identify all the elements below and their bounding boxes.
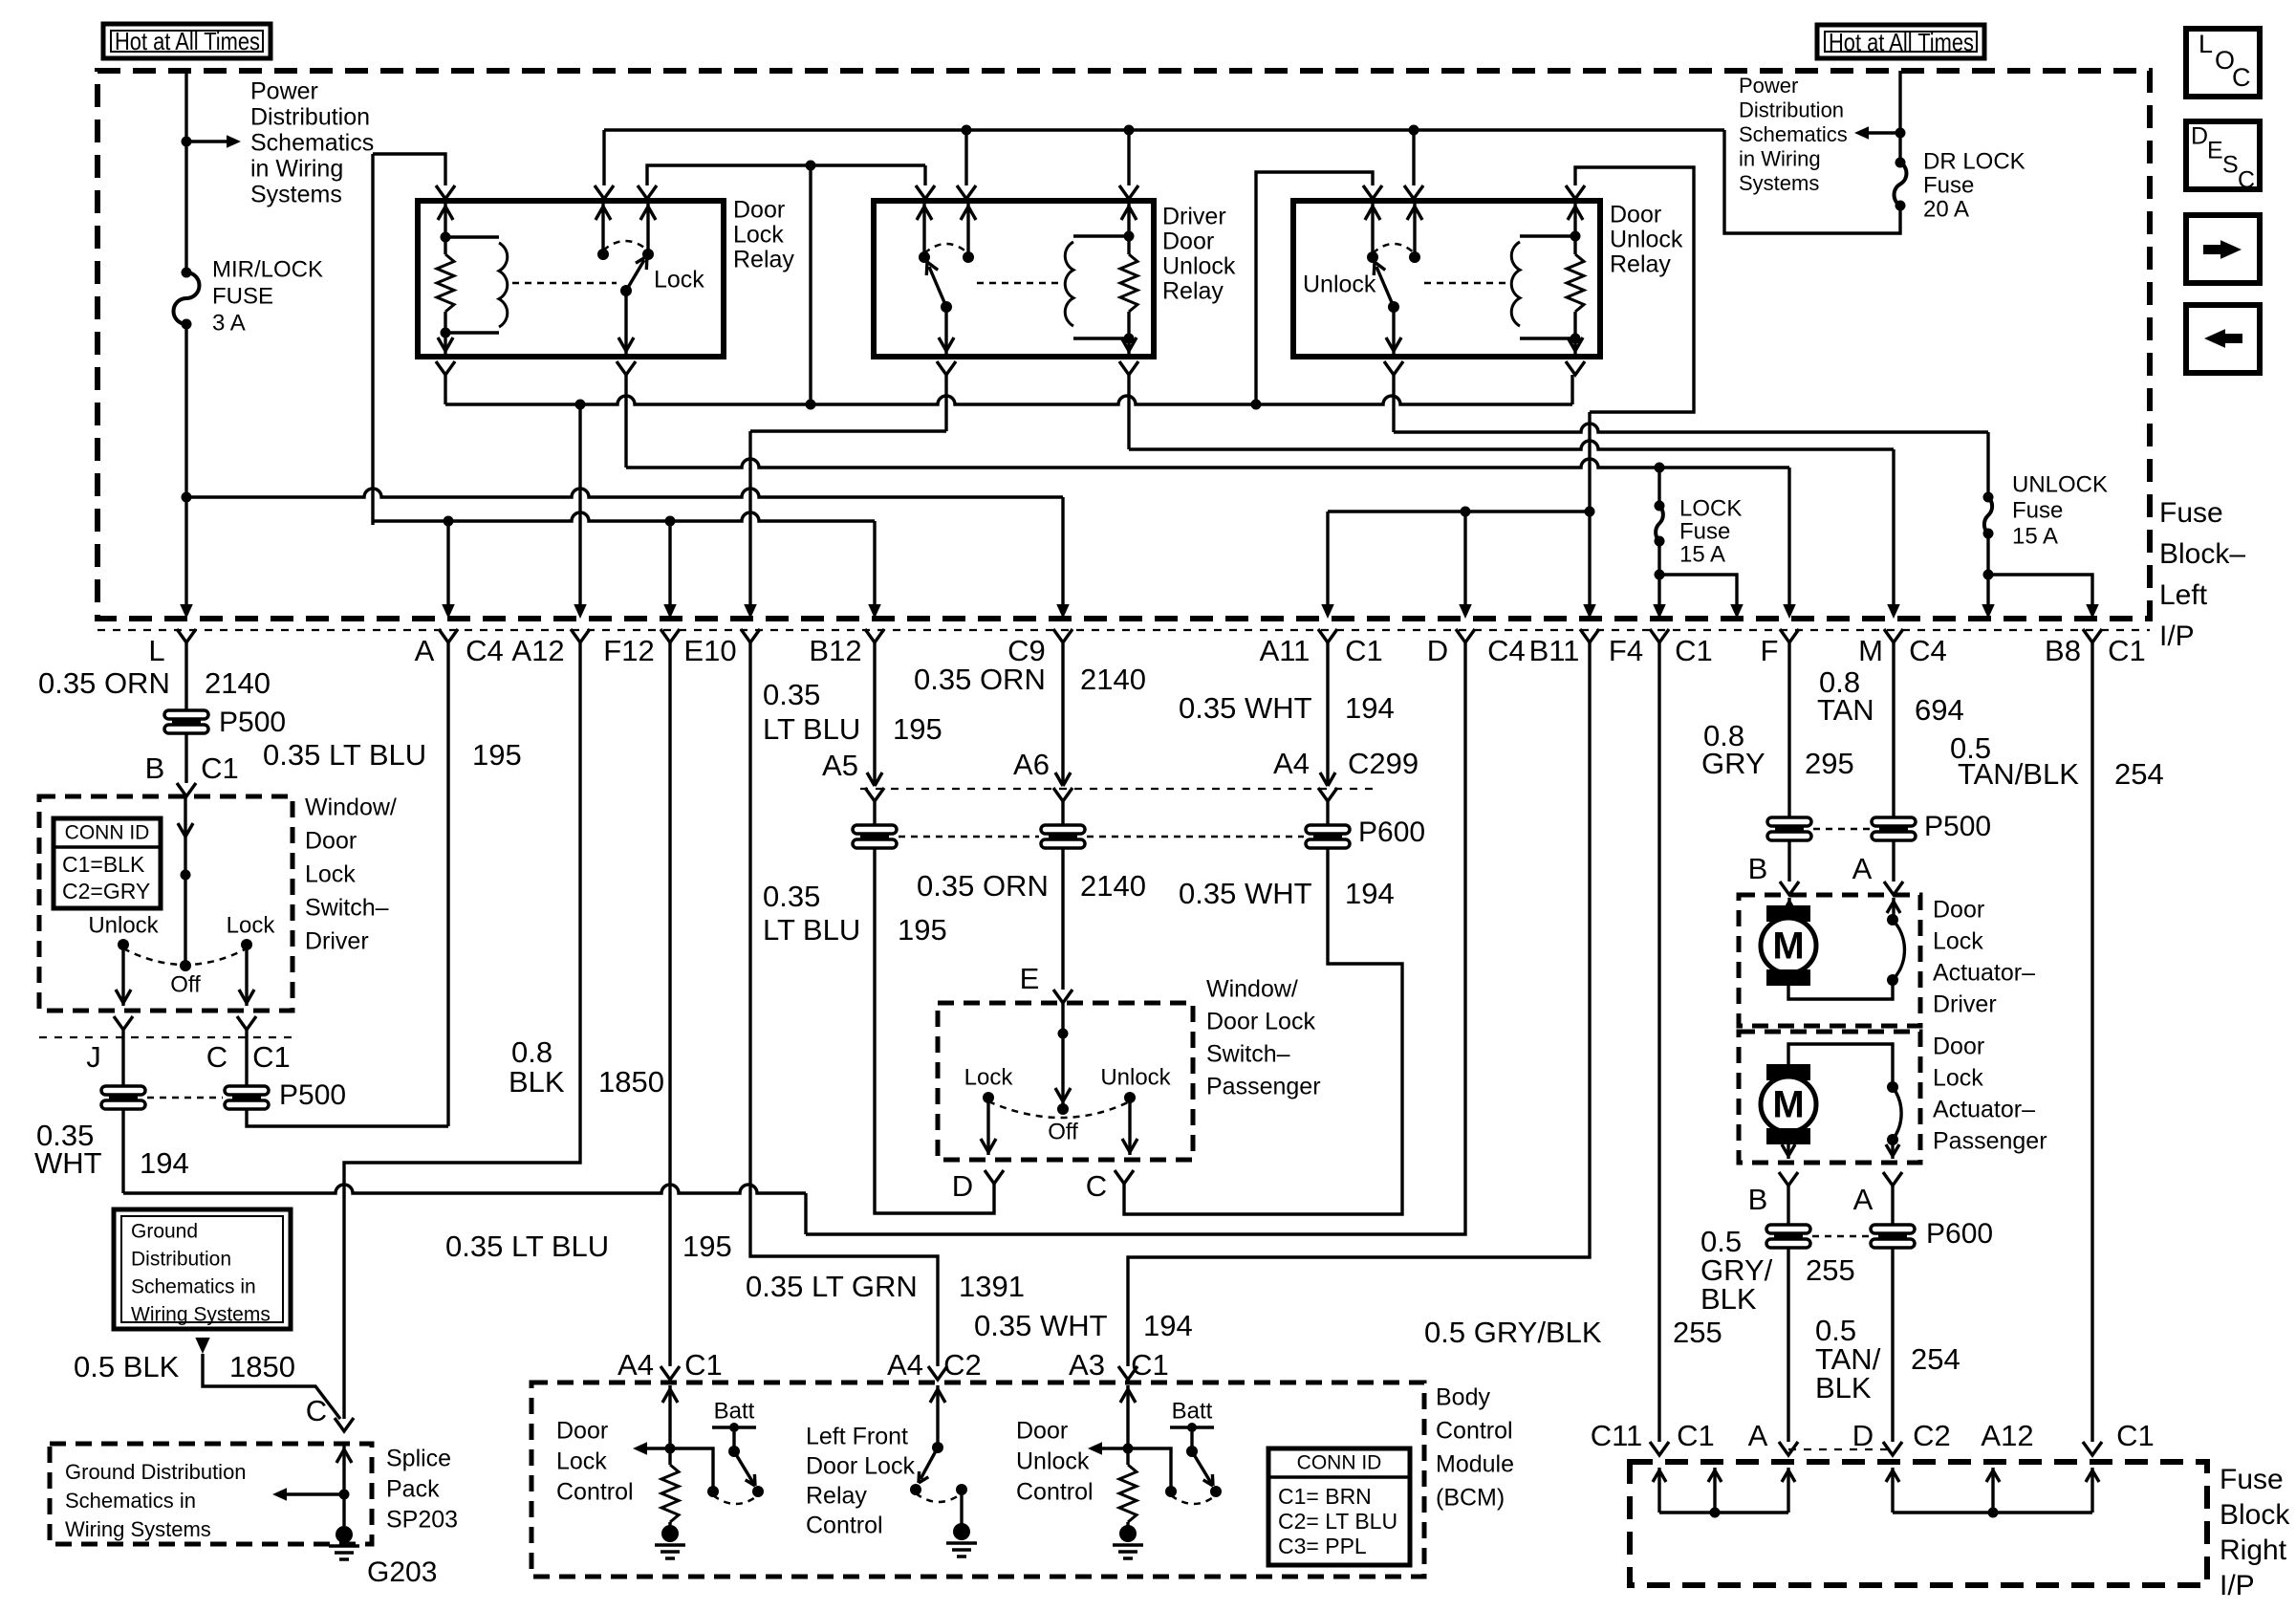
svg-text:M: M — [1858, 634, 1883, 667]
svg-text:Control: Control — [806, 1513, 883, 1539]
node bus545 at F12 pin — [665, 516, 676, 527]
BCM door unlock control input arrow — [1126, 1385, 1129, 1448]
BCM Batt 2 left contact — [1165, 1486, 1177, 1497]
svg-text:A4: A4 — [617, 1348, 654, 1382]
svg-text:2140: 2140 — [205, 666, 271, 700]
fuse block right internal bus 1 — [1657, 1468, 1660, 1513]
svg-text:C1=BLK: C1=BLK — [62, 852, 145, 877]
wire: link y=180 from bus riser to relay3 left contact pin — [1256, 172, 1373, 404]
svg-text:0.35: 0.35 — [763, 880, 820, 913]
arrow to Power Distribution Schematics (right-pointing) — [186, 140, 227, 142]
relay3 coil bottom pin arrow inside (down) — [1573, 338, 1576, 354]
relay2 pole pin chevron below box — [937, 361, 956, 375]
svg-text:0.35: 0.35 — [763, 678, 820, 711]
fine dashed connector line between pins A and D — [1788, 1448, 1893, 1450]
pin E10 — [741, 629, 760, 642]
body control module dashed box — [531, 1382, 1424, 1577]
svg-text:2140: 2140 — [1080, 869, 1146, 903]
BCM door lock control output arrow west — [646, 1447, 670, 1449]
wire: P500 to driver switch pin B-C1 — [184, 733, 187, 783]
svg-text:C1: C1 — [1345, 634, 1383, 667]
pin B of passenger actuator — [1779, 1172, 1798, 1186]
svg-text:Door Lock: Door Lock — [806, 1453, 915, 1480]
svg-text:F12: F12 — [603, 634, 654, 667]
svg-text:Off: Off — [1048, 1119, 1078, 1144]
wire: bus y=470 relay2 coil to M pin — [1129, 441, 1894, 449]
svg-text:Lock: Lock — [556, 1448, 607, 1475]
svg-text:194: 194 — [1345, 877, 1395, 910]
wire: P500 to driver actuator pin A — [1892, 840, 1895, 882]
svg-text:MIR/LOCK: MIR/LOCK — [212, 256, 323, 282]
relay K2 box: Driver Door Unlock Relay — [874, 201, 1154, 357]
svg-text:D: D — [1427, 634, 1448, 667]
svg-text:CONN ID: CONN ID — [65, 822, 150, 844]
driver actuator link bar — [1788, 980, 1893, 999]
fuse: DR LOCK Fuse 20 A — [1895, 163, 1907, 206]
svg-text:295: 295 — [1805, 747, 1854, 780]
svg-text:P500: P500 — [219, 707, 286, 738]
wire: relay3 coil top pin link to B11 drop (y=175, x=1772, y=431) — [1575, 167, 1694, 412]
fuse block left connector fine dashed line — [97, 629, 2150, 631]
relay1 left switch contact — [597, 249, 609, 260]
svg-text:C1: C1 — [2108, 634, 2146, 667]
svg-text:Pack: Pack — [386, 1476, 440, 1503]
wire: B11 net to BCM A3-C1 (0.35 WHT 194) — [1128, 642, 1590, 1366]
svg-text:Schematics: Schematics — [1739, 122, 1848, 146]
connector P500 pair below driver switch — [101, 1086, 145, 1095]
svg-text:Relay: Relay — [806, 1483, 867, 1510]
svg-text:Left: Left — [2159, 579, 2208, 611]
svg-text:194: 194 — [1143, 1309, 1193, 1342]
arrow to Power Distribution Schematics (left-pointing) — [1866, 131, 1900, 134]
svg-text:Control: Control — [1016, 1479, 1094, 1506]
arrow into border at pin L — [180, 604, 193, 619]
wire: D drop from bus535 — [1463, 512, 1466, 606]
svg-text:TAN/BLK: TAN/BLK — [1958, 757, 2079, 791]
svg-text:Passenger: Passenger — [1933, 1128, 2047, 1155]
wire: B11 vertical from y=431 through buses to border — [1588, 412, 1591, 606]
wire: A12 ground wire 0.8 BLK down to splice — [344, 642, 580, 1419]
relay3 left switch contact — [1367, 251, 1378, 263]
relay2 left contact pin arrow inside — [922, 204, 925, 257]
relay3 actuation dashed link — [1424, 282, 1508, 285]
svg-text:Schematics in: Schematics in — [65, 1489, 196, 1513]
wire: bus y=423 relay1 coil bottom to relay3 coil bottom — [444, 375, 446, 404]
svg-text:M: M — [1772, 925, 1804, 968]
svg-text:Unlock: Unlock — [1610, 227, 1683, 253]
motor M passenger actuator — [1766, 1064, 1810, 1080]
svg-text:UNLOCK: UNLOCK — [2012, 471, 2108, 497]
svg-text:J: J — [86, 1040, 101, 1074]
svg-text:A: A — [1853, 1183, 1874, 1216]
pin C of passenger switch — [1115, 1170, 1134, 1184]
splice pack stem arrow up — [342, 1446, 345, 1526]
node on passenger stem — [1058, 1029, 1069, 1039]
svg-text:Unlock: Unlock — [1162, 253, 1236, 280]
svg-text:Fuse: Fuse — [2012, 497, 2063, 523]
BCM Batt 1 arm — [734, 1451, 753, 1483]
BCM switch 2 left contact — [910, 1484, 921, 1495]
svg-text:D: D — [952, 1169, 973, 1203]
svg-text:A12: A12 — [511, 634, 564, 667]
wire: A pin drop — [446, 521, 449, 606]
relay2 coil bottom pin arrow inside (down) — [1127, 338, 1130, 354]
node bus423 at x=1314 — [1251, 400, 1262, 410]
svg-text:C3= PPL: C3= PPL — [1278, 1534, 1367, 1558]
pin A11 of C1 — [1318, 629, 1337, 642]
icon box DESC — [2186, 121, 2260, 189]
relay3 pole pin chevron below box — [1384, 361, 1403, 375]
BCM Batt 1 pivot — [732, 1427, 735, 1451]
svg-text:C2: C2 — [1913, 1419, 1951, 1452]
wire: MIR/LOCK fuse to pin L — [184, 324, 187, 606]
svg-text:Door: Door — [1933, 1034, 1984, 1060]
svg-text:Distribution: Distribution — [1739, 98, 1844, 121]
svg-text:B11: B11 — [1529, 634, 1580, 667]
BCM Batt 1 bar — [712, 1426, 756, 1429]
svg-text:A4: A4 — [887, 1348, 923, 1382]
svg-text:C1: C1 — [201, 751, 239, 785]
svg-text:Hot at All Times: Hot at All Times — [115, 27, 260, 55]
svg-text:Module: Module — [1436, 1451, 1514, 1478]
svg-text:L: L — [2199, 30, 2213, 58]
wire: C9 drop from bus520 to border — [1061, 497, 1064, 606]
coil (inductor) in relay3 — [1520, 234, 1575, 237]
node bus136 at x=1181 — [1124, 125, 1135, 136]
resistor in relay1 — [437, 254, 454, 312]
pin F12 — [661, 629, 680, 642]
svg-text:0.35 LT GRN: 0.35 LT GRN — [746, 1270, 918, 1303]
svg-text:1850: 1850 — [598, 1065, 664, 1099]
svg-text:Left Front: Left Front — [806, 1424, 908, 1450]
svg-text:0.35 ORN: 0.35 ORN — [917, 869, 1049, 903]
svg-text:Fuse: Fuse — [2159, 497, 2223, 529]
svg-text:20 A: 20 A — [1923, 196, 1969, 222]
wire: passenger actuator B to P600 — [1787, 1186, 1789, 1225]
svg-text:3 A: 3 A — [212, 310, 246, 336]
coil (inductor) in relay2 — [1073, 234, 1129, 237]
svg-text:Driver: Driver — [1933, 991, 1997, 1018]
wire: A11 drop from bus535 — [1326, 512, 1329, 606]
fuse block right I/P dashed box — [1630, 1462, 2207, 1585]
BCM ground 1 — [668, 1522, 671, 1528]
node bus423 at A12 drop — [575, 400, 586, 410]
fuse: UNLOCK Fuse 15 A — [1986, 432, 1989, 497]
svg-text:C1: C1 — [1675, 634, 1713, 667]
svg-text:S: S — [2222, 152, 2239, 179]
svg-text:A5: A5 — [822, 749, 858, 782]
passenger switch stem with arrow — [1061, 1003, 1064, 1109]
coil (inductor) in relay1 — [445, 235, 499, 238]
svg-text:0.35 WHT: 0.35 WHT — [974, 1309, 1108, 1342]
relay2 bottom-right pin chevron below box — [1119, 361, 1138, 375]
svg-text:B12: B12 — [809, 634, 861, 667]
svg-text:Lock: Lock — [964, 1064, 1014, 1090]
BCM switch 2 pivot — [932, 1442, 943, 1453]
svg-text:G203: G203 — [367, 1557, 437, 1588]
node bus423 at x=848 — [806, 400, 816, 410]
passenger Unlock output arrow — [1128, 1098, 1131, 1155]
svg-text:694: 694 — [1915, 693, 1964, 727]
driver switch Lock output arrow — [245, 945, 248, 1006]
svg-text:Systems: Systems — [1739, 171, 1819, 195]
wire: F pin to P500 (0.8 GRY 295) — [1787, 642, 1790, 816]
svg-text:0.5 BLK: 0.5 BLK — [74, 1350, 180, 1383]
svg-text:LOCK: LOCK — [1679, 495, 1742, 521]
node LOCK fuse output — [1655, 570, 1665, 580]
svg-text:Right: Right — [2220, 1535, 2287, 1566]
svg-text:Driver: Driver — [1162, 204, 1226, 230]
relay3 switch dashed arc — [1373, 244, 1415, 253]
svg-text:Batt: Batt — [1172, 1398, 1213, 1424]
relay1 switch arm toward Lock contact — [626, 260, 644, 291]
wire: relay2 pole down to y=451 — [944, 375, 947, 431]
label box: Hot at All Times (right) — [1817, 25, 1984, 58]
wire: DR LOCK fuse output down and left step to bus — [1724, 130, 1900, 233]
relay1 pole wire down inside — [624, 291, 627, 354]
svg-text:195: 195 — [472, 738, 522, 772]
wire: M pin drop from bus470 — [1892, 449, 1895, 606]
passenger switch Lock contact — [983, 1092, 994, 1103]
relay3 switch pole — [1388, 301, 1399, 313]
svg-text:Relay: Relay — [733, 247, 794, 273]
svg-text:A: A — [415, 634, 435, 667]
svg-text:Door: Door — [733, 197, 785, 224]
wire: relay3 pole down to y=452 bus — [1392, 375, 1395, 432]
pin D of C4 — [1456, 629, 1475, 642]
node relay1 coil bottom — [441, 328, 451, 338]
svg-text:Fuse: Fuse — [1679, 518, 1730, 544]
wire: link y=451 E10 to relay2 pole — [750, 429, 946, 432]
svg-text:Lock: Lock — [1933, 928, 1983, 955]
relay3 left contact pin arrow inside — [1371, 204, 1374, 257]
passenger actuator switch lower contact — [1887, 1134, 1898, 1145]
passenger actuator motor output arrow — [1787, 1144, 1789, 1159]
svg-text:Hot at All Times: Hot at All Times — [1829, 28, 1974, 56]
pin F4 of C1 — [1650, 629, 1669, 642]
wire: C P500 down and east to A-wire junction — [247, 1109, 448, 1126]
wire: bus136 drop to relay2 coil pin — [1127, 130, 1130, 185]
connector P500 on ORN wire — [164, 710, 208, 719]
fuse: LOCK Fuse 15 A — [1657, 468, 1660, 506]
wire: relay2 coil bottom down to y=470 bus — [1127, 375, 1130, 449]
svg-text:in Wiring: in Wiring — [1739, 146, 1821, 170]
svg-text:Window/: Window/ — [1206, 976, 1298, 1003]
pin A12 of C4 — [571, 629, 590, 642]
wire: bus y=535 A11/D to B11 drop — [1328, 510, 1590, 512]
svg-text:C2= LT BLU: C2= LT BLU — [1278, 1509, 1397, 1534]
node bus535 at B11 wire — [1585, 507, 1595, 517]
svg-text:Wiring Systems: Wiring Systems — [65, 1517, 211, 1541]
svg-text:B8: B8 — [2045, 634, 2081, 667]
wire: passenger actuator A to P600 — [1891, 1186, 1894, 1225]
svg-text:SP203: SP203 — [386, 1507, 458, 1534]
wire: J P500 down and east (0.35 WHT 194) — [121, 1109, 124, 1193]
svg-text:C: C — [1086, 1169, 1107, 1203]
svg-text:2140: 2140 — [1080, 663, 1146, 696]
pin A (connector C4) — [439, 629, 458, 642]
svg-text:Door: Door — [556, 1418, 608, 1445]
wire: A12 drop from bus423 to border — [578, 404, 581, 606]
svg-text:B: B — [1748, 852, 1768, 885]
BCM door lock control input arrow — [668, 1385, 671, 1448]
svg-text:C1: C1 — [252, 1040, 291, 1074]
relay3 pole wire down inside — [1392, 307, 1395, 354]
wire: ORN bus y=520 from MIR fuse wire to C9 drop — [186, 489, 1063, 497]
svg-text:P500: P500 — [1924, 811, 1991, 842]
svg-text:Control: Control — [1436, 1418, 1513, 1445]
svg-text:A6: A6 — [1013, 748, 1050, 781]
svg-text:C1: C1 — [1131, 1348, 1169, 1382]
node bus535 at D drop — [1461, 507, 1471, 517]
svg-text:0.35 LT BLU: 0.35 LT BLU — [263, 738, 426, 772]
svg-text:in Wiring: in Wiring — [250, 156, 343, 183]
wire: B12 to A5 connector (0.35 LT BLU 195) — [873, 642, 876, 785]
BCM switch 2 right contact to ground — [956, 1484, 967, 1495]
relay2 pole wire down inside — [944, 307, 947, 354]
wire: bus y=452 relay3 pole to UNLOCK fuse — [1394, 424, 1988, 432]
wire: pin L to P500 (0.35 ORN 2140) — [184, 642, 187, 710]
svg-text:C: C — [206, 1040, 227, 1074]
wire: C9 net below connector to passenger switch pin E — [1061, 848, 1064, 990]
wire: relay1 right contact pin up link y=173 — [647, 165, 925, 185]
wire: relay1 pole down to y=489 bus — [624, 375, 627, 468]
pin B8 of C1 — [2083, 629, 2102, 642]
svg-text:B: B — [145, 751, 165, 785]
node at power distribution tap (right) — [1895, 128, 1906, 139]
svg-text:Switch–: Switch– — [1206, 1041, 1290, 1068]
wire: E10 drop from y=451 to border — [748, 431, 751, 606]
svg-text:Splice: Splice — [386, 1446, 451, 1472]
connector P500 pair (actuator driver) — [1767, 817, 1811, 826]
wire: DR LOCK bus y=136 from relay1 coil contact to right step — [604, 128, 1724, 131]
svg-text:0.35 ORN: 0.35 ORN — [38, 666, 170, 700]
svg-text:Schematics: Schematics — [250, 130, 374, 157]
pin A of passenger actuator — [1883, 1172, 1902, 1186]
wire: F12 to BCM A4-C1 (0.35 LT BLU 195) — [668, 642, 671, 1366]
BCM left front door lock relay control input arrow — [936, 1385, 939, 1448]
svg-text:GRY: GRY — [1701, 747, 1765, 780]
pin F — [1780, 629, 1799, 642]
driver switch pole — [180, 960, 191, 971]
svg-text:I/P: I/P — [2220, 1570, 2255, 1601]
icon box LOC — [2186, 29, 2260, 97]
svg-text:F: F — [1761, 634, 1779, 667]
pin C of splice pack — [335, 1418, 354, 1431]
wire: bus136 drop to relay3 right switch contact pin — [1412, 130, 1415, 185]
node y=173 x=848 — [806, 161, 816, 171]
relay3 bottom-right pin chevron below box — [1566, 361, 1585, 375]
triangle arrow from ground distribution box — [195, 1338, 209, 1354]
svg-text:Lock: Lock — [733, 222, 784, 249]
window/door lock switch driver dashed box — [39, 796, 292, 1011]
driver switch Lock contact — [241, 939, 252, 950]
connector P600 pair — [1766, 1225, 1810, 1233]
driver actuator motor feed arrow — [1787, 898, 1790, 911]
wire: UNLOCK fuse output to border arrow — [1986, 575, 1989, 606]
BCM pulldown resistor 1 — [661, 1465, 679, 1522]
svg-text:195: 195 — [682, 1230, 732, 1263]
svg-text:WHT: WHT — [34, 1146, 102, 1180]
BCM ground 3 — [1126, 1522, 1129, 1528]
svg-text:L: L — [148, 634, 164, 667]
wire: LOCK fuse output to F4-C1 pin — [1657, 575, 1660, 606]
BCM Batt 2 pivot — [1190, 1427, 1193, 1451]
wire: F pin drop from bus489 — [1787, 468, 1790, 606]
svg-text:BLK: BLK — [1700, 1282, 1757, 1316]
node bus136 at x=1479 — [1409, 125, 1419, 136]
svg-text:Unlock: Unlock — [88, 912, 159, 938]
relay3 coil pin arrow inside (up) — [1573, 204, 1576, 236]
svg-text:Block: Block — [2220, 1499, 2290, 1531]
relay3 switch arm toward left contact — [1376, 267, 1394, 307]
svg-text:C1= BRN: C1= BRN — [1278, 1484, 1372, 1509]
wire: pin A down the LT BLU 195 to passenger lock join — [446, 642, 449, 1126]
svg-text:Batt: Batt — [714, 1398, 755, 1424]
relay3 right contact pin arrow inside — [1413, 204, 1416, 257]
svg-text:254: 254 — [1911, 1342, 1960, 1376]
inline connector P600 row on three wires — [873, 801, 876, 825]
pin B12 — [865, 629, 884, 642]
CONN ID table (BCM) — [1268, 1448, 1410, 1565]
wire: relay1 coil pin from y=161 link — [373, 154, 445, 185]
relay2 coil pin arrow inside (up) — [1127, 204, 1130, 236]
connector row fine dashed line (C299) — [860, 788, 1376, 790]
svg-text:Door: Door — [1933, 897, 1984, 924]
svg-text:195: 195 — [893, 712, 942, 746]
svg-text:Power: Power — [250, 78, 318, 105]
svg-text:F4: F4 — [1609, 634, 1643, 667]
wire: 0.5 BLK 1850 to splice pack — [203, 1354, 340, 1419]
svg-text:194: 194 — [1345, 691, 1395, 725]
relay K1 box: Door Lock Relay — [418, 201, 724, 357]
driver switch dashed arc — [123, 948, 247, 965]
svg-text:15 A: 15 A — [2012, 523, 2058, 549]
BCM Batt 1 left contact — [707, 1486, 719, 1497]
svg-text:0.35 ORN: 0.35 ORN — [914, 663, 1046, 696]
svg-text:A11: A11 — [1260, 634, 1310, 667]
wire: J net along y=1291 to pin D-C4 riser — [806, 642, 1465, 1234]
pin C of C1 driver switch — [237, 1016, 256, 1030]
driver actuator switch arc — [1893, 920, 1904, 980]
passenger switch dashed arc — [988, 1101, 1130, 1118]
label box: Hot at All Times (left) — [103, 24, 271, 58]
relay2 right contact pin arrow inside — [966, 204, 969, 257]
node on feed at power-distribution tap — [182, 137, 192, 147]
svg-text:C1: C1 — [2116, 1419, 2155, 1452]
relay1 coil pin arrow inside (up) — [444, 204, 446, 237]
passenger actuator top link — [1788, 1044, 1893, 1084]
relay1 switch pole — [620, 285, 632, 296]
wire: J pin to P500 — [121, 1030, 124, 1086]
svg-text:E10: E10 — [683, 634, 736, 667]
relay2 left switch contact — [919, 251, 930, 263]
relay1 left switch contact pin arrow inside — [601, 204, 604, 254]
BCM Batt 2 contact feed — [1128, 1448, 1171, 1488]
node BCM A3 net — [1123, 1444, 1134, 1454]
svg-text:Door: Door — [305, 828, 357, 855]
svg-text:A: A — [1748, 1419, 1768, 1452]
arrow west inside splice pack — [284, 1492, 344, 1495]
window/door lock switch passenger dashed box — [938, 1003, 1193, 1160]
passenger actuator switch arc — [1893, 1087, 1901, 1140]
driver switch common stem with arrow — [184, 796, 186, 966]
node relay1 coil top — [441, 232, 451, 243]
svg-text:CONN ID: CONN ID — [1297, 1452, 1382, 1474]
driver actuator switch upper contact — [1887, 914, 1898, 925]
svg-text:LT BLU: LT BLU — [763, 913, 860, 947]
svg-text:C4: C4 — [466, 634, 504, 667]
